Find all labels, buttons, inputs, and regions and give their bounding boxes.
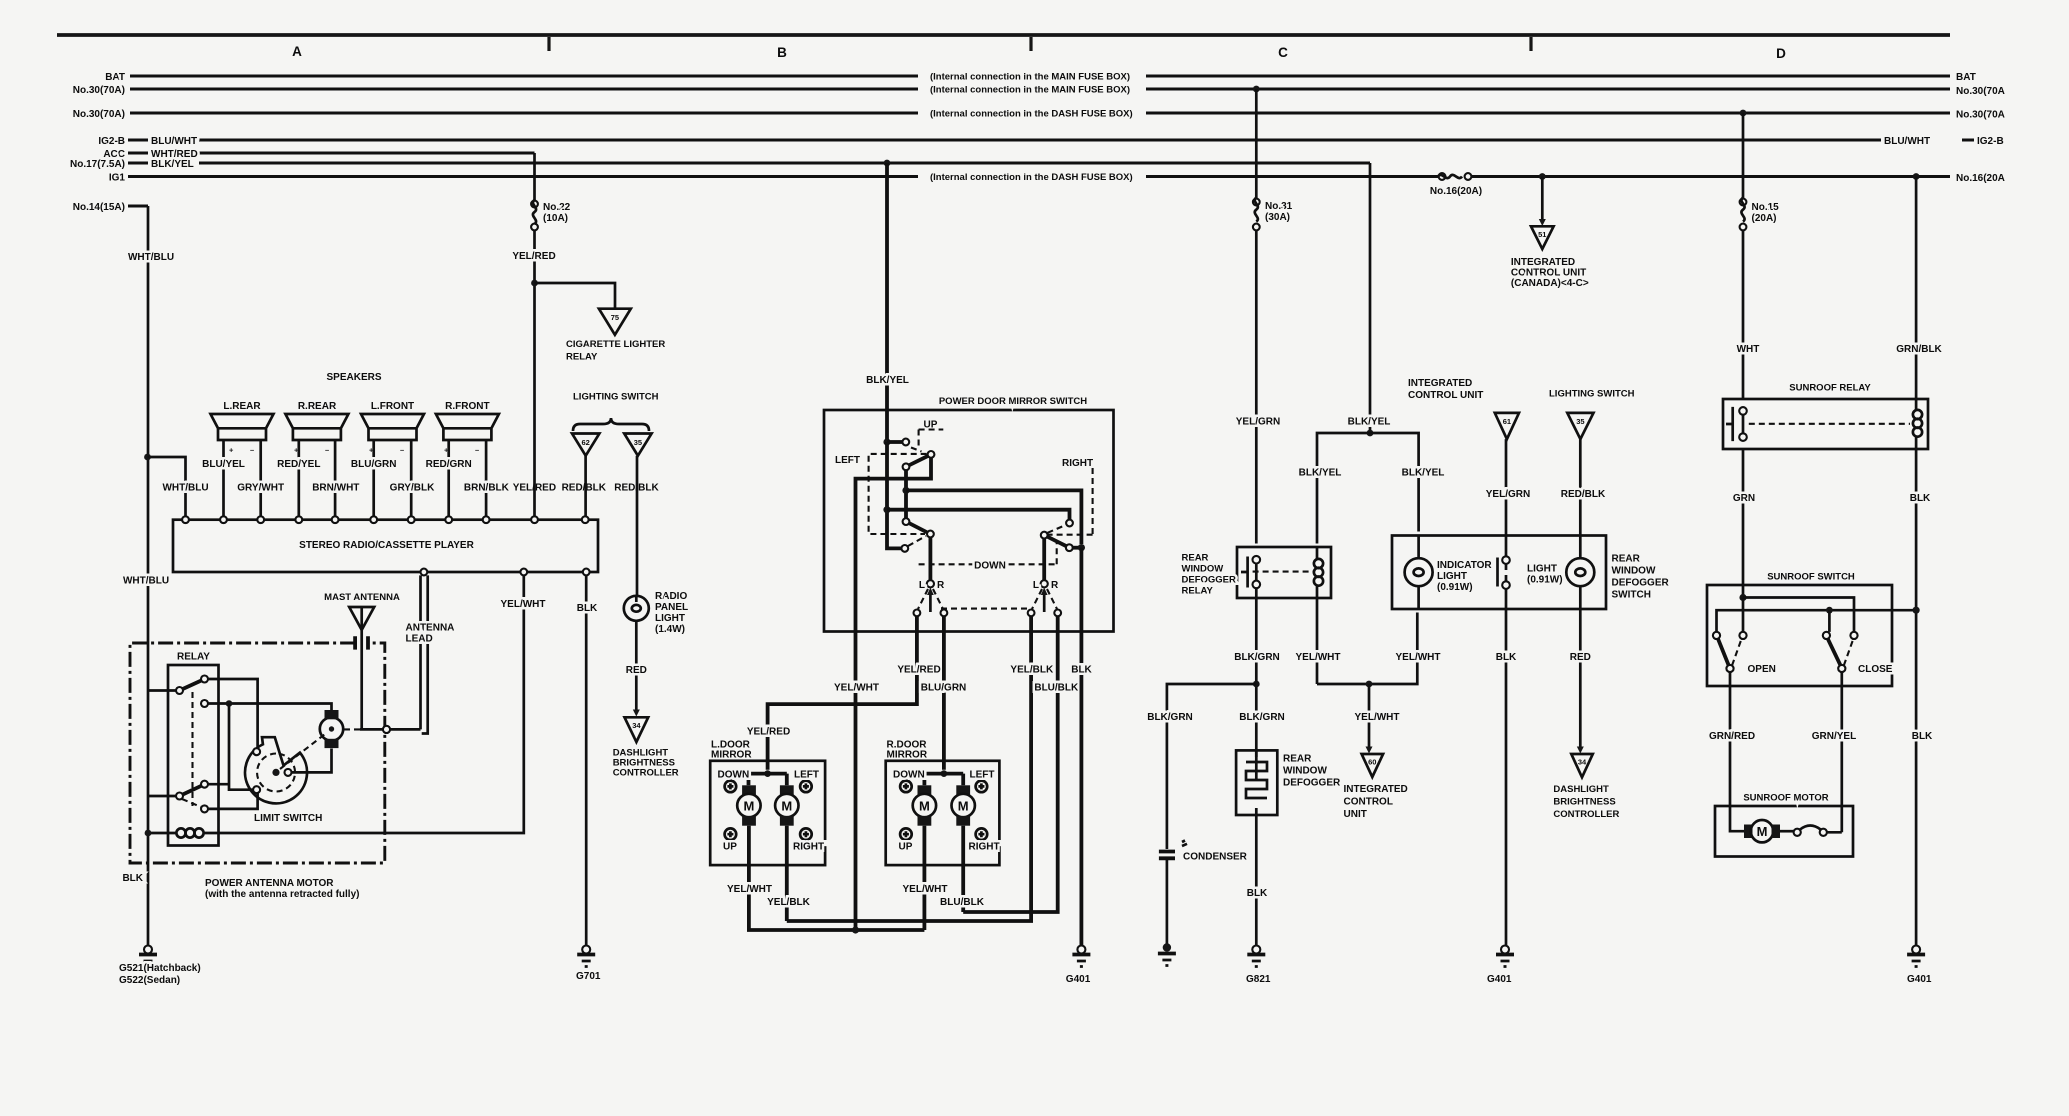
svg-text:LIGHTING SWITCH: LIGHTING SWITCH (1549, 389, 1635, 400)
svg-text:DEFOGGER: DEFOGGER (1612, 578, 1670, 589)
svg-text:G821: G821 (1246, 974, 1271, 985)
svg-text:CLOSE: CLOSE (1858, 664, 1893, 675)
node on BLK/YEL bus for mirror switch (884, 160, 891, 167)
svg-text:34: 34 (632, 721, 641, 730)
svg-text:DEFOGGER: DEFOGGER (1283, 778, 1341, 789)
wire BLK/YEL down to mirror switch (885, 163, 889, 442)
wire WHT/BLU vertical from No.14 (147, 206, 150, 946)
svg-text:–: – (475, 446, 479, 455)
svg-text:No.30(70A): No.30(70A) (73, 109, 125, 120)
svg-text:RED/YEL: RED/YEL (277, 459, 320, 470)
svg-text:CONTROLLER: CONTROLLER (1553, 809, 1619, 820)
speaker R.FRONT (436, 401, 499, 516)
svg-text:CIGARETTE LIGHTER: CIGARETTE LIGHTER (566, 339, 665, 350)
antenna lead twin line (421, 575, 428, 733)
wire BLK to G821 (1255, 815, 1258, 946)
svg-text:YEL/BLK: YEL/BLK (767, 897, 811, 908)
relay terminals (1253, 556, 1261, 564)
svg-text:RADIO: RADIO (655, 591, 687, 602)
dashed D-F (182, 799, 201, 807)
svg-text:60: 60 (1368, 758, 1376, 767)
wire BLK/GRN below relay (1255, 588, 1258, 780)
stub No.14 (128, 205, 148, 208)
svg-text:(with the antenna retracted fu: (with the antenna retracted fully) (205, 889, 359, 900)
svg-text:(20A): (20A) (1752, 213, 1777, 224)
wire E stub (208, 783, 229, 786)
triangle 61 (1495, 413, 1519, 439)
svg-text:BLU/WHT: BLU/WHT (1884, 136, 1930, 147)
svg-text:INTEGRATED: INTEGRATED (1408, 378, 1472, 389)
svg-text:G401: G401 (1487, 974, 1512, 985)
svg-text:BLK: BLK (577, 603, 598, 614)
triangle 75 cigarette lighter relay (599, 309, 631, 335)
wire C to motor top (208, 704, 332, 711)
svg-text:(Internal connection in the DA: (Internal connection in the DASH FUSE BO… (930, 109, 1133, 120)
wires YEL/RED BLU/GRN exit (917, 616, 944, 631)
svg-text:YEL/WHT: YEL/WHT (903, 884, 948, 895)
svg-text:CONTROL UNIT: CONTROL UNIT (1511, 268, 1586, 279)
wire to cigarette lighter relay (535, 283, 616, 309)
svg-text:STEREO RADIO/CASSETTE PLAYER: STEREO RADIO/CASSETTE PLAYER (299, 540, 474, 551)
svg-text:GRN/RED: GRN/RED (1709, 731, 1755, 742)
dash-dot power antenna motor box (130, 643, 385, 863)
node on No.30-2 bus for WHT (1740, 110, 1747, 117)
rear window defogger relay box (1237, 547, 1331, 598)
stub to BLK rail (1073, 546, 1082, 550)
antenna motor (320, 710, 383, 748)
svg-text:34: 34 (1578, 758, 1587, 767)
svg-text:L: L (919, 580, 925, 591)
fork BLU/GRN (941, 770, 948, 777)
svg-text:BLU/BLK: BLU/BLK (940, 897, 985, 908)
svg-text:REAR: REAR (1182, 553, 1209, 564)
svg-text:DOWN: DOWN (718, 770, 750, 781)
svg-text:WINDOW: WINDOW (1612, 566, 1656, 577)
wire BLK relay down (1915, 449, 1918, 946)
svg-text:SUNROOF SWITCH: SUNROOF SWITCH (1767, 572, 1855, 583)
node YEL/WHT join (852, 926, 859, 933)
svg-text:WHT/BLU: WHT/BLU (162, 483, 208, 494)
svg-text:YEL/WHT: YEL/WHT (727, 884, 772, 895)
svg-text:No.17(7.5A): No.17(7.5A) (70, 159, 125, 170)
svg-text:(Internal connection in the MA: (Internal connection in the MAIN FUSE BO… (930, 85, 1130, 96)
svg-text:DASHLIGHT: DASHLIGHT (1553, 784, 1609, 795)
right switch contacts (1066, 520, 1073, 527)
svg-text:(0.91W): (0.91W) (1527, 575, 1563, 586)
svg-text:BLK/YEL: BLK/YEL (151, 159, 194, 170)
svg-text:RELAY: RELAY (1182, 586, 1214, 597)
sunroof relay box (1723, 399, 1928, 449)
limit switch disc (245, 733, 331, 825)
motor L.DOOR down/up (742, 785, 756, 795)
wire No.30(70A) bus (130, 88, 1950, 91)
svg-text:INTEGRATED: INTEGRATED (1344, 784, 1408, 795)
svg-text:YEL/WHT: YEL/WHT (1296, 652, 1341, 663)
section tick A/B (547, 37, 550, 51)
ground G821 (1252, 946, 1260, 954)
dash ACC (128, 152, 148, 155)
limit switch top terminal (253, 748, 260, 755)
svg-text:BLK/YEL: BLK/YEL (1402, 468, 1445, 479)
node cigarette branch (531, 280, 538, 287)
wire BLU/GRN below box (942, 632, 946, 770)
triangle 35 (C) (1567, 413, 1593, 439)
arm upper (909, 456, 928, 465)
svg-text:61: 61 (1503, 417, 1511, 426)
dash No.17 (128, 162, 148, 165)
svg-text:GRN/BLK: GRN/BLK (1896, 344, 1942, 355)
relay contact C (201, 700, 208, 707)
relay contact F (201, 805, 208, 812)
svg-text:BLK/YEL: BLK/YEL (1348, 417, 1391, 428)
svg-text:No.31: No.31 (1265, 201, 1293, 212)
triangle 62 (572, 434, 599, 456)
dashed V left group (918, 589, 943, 609)
YEL/WHT bus (1317, 613, 1417, 685)
svg-text:(10A): (10A) (543, 213, 568, 224)
svg-text:BLK: BLK (1247, 888, 1268, 899)
svg-text:RED: RED (1570, 652, 1591, 663)
svg-text:SPEAKERS: SPEAKERS (326, 372, 381, 383)
svg-text:BLK/YEL: BLK/YEL (866, 375, 909, 386)
svg-text:YEL/GRN: YEL/GRN (1486, 489, 1530, 500)
svg-text:No.16(20A): No.16(20A) (1430, 186, 1482, 197)
dashed link lower arrows (941, 608, 1027, 610)
svg-text:WHT/BLU: WHT/BLU (128, 252, 174, 263)
svg-text:(Internal connection in the DA: (Internal connection in the DASH FUSE BO… (930, 172, 1133, 183)
svg-text:35: 35 (634, 438, 642, 447)
wire BLK/YEL continues (887, 442, 901, 548)
wire YEL/RED from ACC (533, 153, 536, 516)
svg-text:RED/BLK: RED/BLK (1561, 489, 1606, 500)
relay coil (1314, 559, 1323, 568)
svg-text:D: D (1776, 46, 1786, 61)
svg-text:M: M (781, 799, 792, 814)
node BLK/YEL split (1367, 430, 1374, 437)
rail 1 to right switch (906, 490, 1081, 544)
svg-text:WINDOW: WINDOW (1283, 766, 1327, 777)
svg-text:GRY/BLK: GRY/BLK (390, 483, 435, 494)
svg-text:BAT: BAT (105, 72, 125, 83)
svg-text:UNIT: UNIT (1344, 809, 1367, 820)
relay dashed linkage (191, 692, 193, 806)
svg-text:75: 75 (611, 313, 619, 322)
svg-text:BLK/GRN: BLK/GRN (1239, 712, 1285, 723)
svg-text:G401: G401 (1066, 974, 1091, 985)
condenser (1159, 852, 1175, 859)
svg-text:BLU/WHT: BLU/WHT (151, 136, 197, 147)
svg-text:IG1: IG1 (109, 173, 126, 184)
svg-text:35: 35 (1576, 417, 1584, 426)
wire BLK/YEL main down (1369, 163, 1372, 433)
svg-text:LIGHT: LIGHT (655, 613, 685, 624)
relay coil (176, 828, 185, 837)
top rule (57, 33, 1950, 37)
wire YEL/GRN from fuse No.31 (1255, 89, 1258, 544)
svg-text:REAR: REAR (1612, 554, 1641, 565)
svg-text:No.30(70A: No.30(70A (1956, 110, 2005, 121)
svg-text:LEFT: LEFT (794, 770, 819, 781)
triangle 60 (1362, 754, 1384, 777)
wire pivot down to L R (929, 537, 933, 580)
svg-text:BLK: BLK (1910, 493, 1931, 504)
svg-text:(0.91W): (0.91W) (1437, 582, 1473, 593)
fuse No.16(20A) inline (1439, 173, 1446, 180)
svg-text:RED/GRN: RED/GRN (426, 459, 472, 470)
wire to triangle 60 (1368, 684, 1371, 747)
wire BAT bus (130, 75, 1950, 78)
svg-text:G522(Sedan): G522(Sedan) (119, 975, 180, 986)
svg-text:BLK: BLK (1071, 665, 1092, 676)
wire WHT/BLU to contact D (148, 795, 176, 798)
svg-text:GRN: GRN (1733, 493, 1755, 504)
stereo bottom pins (421, 569, 428, 576)
svg-text:RED: RED (626, 665, 647, 676)
motor switch contacts (1794, 829, 1801, 836)
node GRN rail (1739, 594, 1746, 601)
svg-text:(CANADA)<4-C>: (CANADA)<4-C> (1511, 278, 1589, 289)
svg-text:DEFOGGER: DEFOGGER (1182, 575, 1237, 586)
svg-text:MIRROR: MIRROR (887, 750, 928, 761)
arm right switch (1047, 537, 1066, 546)
indicator light / defogger switch box (1392, 536, 1606, 610)
ground G401 (B) (1077, 946, 1085, 954)
svg-text:RELAY: RELAY (566, 352, 598, 363)
svg-text:No.15: No.15 (1752, 202, 1780, 213)
wire BLK below box to G401 (1505, 609, 1508, 946)
motor L.DOOR left/right (780, 785, 794, 795)
R.DOOR wires below (924, 865, 963, 930)
svg-text:SUNROOF MOTOR: SUNROOF MOTOR (1743, 793, 1828, 804)
condenser ground (1163, 943, 1171, 951)
svg-text:YEL/RED: YEL/RED (747, 727, 790, 738)
node BLK/GRN branch to condenser (1253, 681, 1260, 688)
svg-text:BLK/GRN: BLK/GRN (1234, 652, 1280, 663)
wire ACC WHT/RED bus (199, 152, 535, 155)
OPEN switch (1713, 632, 1720, 639)
svg-text:MAST ANTENNA: MAST ANTENNA (324, 592, 400, 603)
dash IG2-B (128, 139, 148, 142)
svg-text:WINDOW: WINDOW (1182, 564, 1224, 575)
dashed V right group (1032, 589, 1057, 609)
speaker L.REAR (211, 401, 274, 516)
wire from upper contact down-left to YEL/WHT exit (856, 458, 932, 632)
wire RED below box (1579, 609, 1582, 747)
arm D-E (183, 786, 202, 795)
svg-text:BLK: BLK (122, 873, 143, 884)
node C branch (226, 700, 233, 707)
node long rail 1 (902, 487, 909, 494)
svg-text:INTEGRATED: INTEGRATED (1511, 257, 1575, 268)
svg-text:REAR: REAR (1283, 754, 1312, 765)
svg-text:SUNROOF RELAY: SUNROOF RELAY (1789, 383, 1871, 394)
wire No.17 BLK/YEL bus (199, 162, 1370, 165)
wire RED/BLK from 35 (1579, 439, 1582, 558)
wire B to limit switch top (208, 679, 258, 748)
svg-text:CONTROL: CONTROL (1344, 797, 1393, 808)
wire YEL/WHT relay to bus (1316, 598, 1319, 684)
wire No.30(70A) second bus (130, 112, 1950, 115)
stub to contact (887, 440, 902, 444)
svg-text:RIGHT: RIGHT (793, 842, 824, 853)
wire pivot right down (1042, 539, 1046, 581)
node on No.30 bus for fuse No.31 (1253, 86, 1260, 93)
svg-text:LIMIT SWITCH: LIMIT SWITCH (254, 813, 322, 824)
svg-text:CONTROL UNIT: CONTROL UNIT (1408, 390, 1483, 401)
svg-text:RIGHT: RIGHT (1062, 458, 1093, 469)
wire YEL/WHT below box (854, 632, 858, 931)
svg-text:L.FRONT: L.FRONT (371, 401, 414, 412)
svg-text:G701: G701 (576, 971, 601, 982)
svg-text:BRN/BLK: BRN/BLK (464, 483, 510, 494)
dashed DOWN link (919, 540, 1057, 564)
arrow up right group (1043, 592, 1046, 612)
wire to triangle 51 (1541, 177, 1544, 220)
svg-text:YEL/WHT: YEL/WHT (834, 683, 879, 694)
brace lighting switch (573, 418, 649, 431)
svg-text:BAT: BAT (1956, 72, 1976, 83)
svg-text:PANEL: PANEL (655, 602, 688, 613)
wire BLK exits (1080, 548, 1084, 632)
relay terminals (1739, 407, 1747, 415)
svg-text:BLU/GRN: BLU/GRN (351, 459, 397, 470)
node WHT/BLU to stereo (144, 454, 151, 461)
arm lower-left (909, 523, 927, 532)
svg-text:No.16(20A: No.16(20A (1956, 173, 2005, 184)
svg-text:ANTENNA: ANTENNA (406, 623, 455, 634)
svg-text:BLK/YEL: BLK/YEL (1299, 468, 1342, 479)
svg-text:GRY/WHT: GRY/WHT (237, 483, 284, 494)
svg-text:BLK: BLK (1912, 731, 1933, 742)
svg-text:(1.4W): (1.4W) (655, 624, 685, 635)
svg-text:YEL/WHT: YEL/WHT (1396, 652, 1441, 663)
svg-text:G401: G401 (1907, 974, 1932, 985)
svg-text:+: + (229, 446, 234, 455)
fork YEL/RED (764, 770, 771, 777)
svg-text:(30A): (30A) (1265, 212, 1290, 223)
limit switch center terminal (285, 769, 292, 776)
svg-text:CONTROLLER: CONTROLLER (613, 768, 679, 779)
wire IG1 / No.16 bus (128, 175, 1950, 178)
fuse No.31 (1253, 199, 1260, 206)
antenna lead terminal (390, 728, 421, 731)
svg-text:–: – (325, 446, 329, 455)
relay contact A (176, 687, 183, 694)
arrow up left group (929, 592, 932, 612)
svg-text:UP: UP (899, 842, 913, 853)
svg-text:LIGHT: LIGHT (1437, 571, 1467, 582)
svg-text:BLU/GRN: BLU/GRN (921, 683, 967, 694)
relay contact E (201, 781, 208, 788)
arm A-B (183, 681, 202, 690)
antenna coupling capacitor (355, 636, 368, 649)
ground G521/G522 (144, 946, 152, 954)
node long rail 2 (883, 506, 890, 513)
wire RED/BLK from 35 to radio panel light (636, 456, 639, 596)
svg-text:BLU/BLK: BLU/BLK (1034, 683, 1079, 694)
wire YEL/RED below box (768, 632, 917, 770)
svg-text:R.FRONT: R.FRONT (445, 401, 489, 412)
relay dashed (1749, 423, 1910, 425)
triangle 35 (A) (624, 434, 651, 456)
lower-left switch contacts (903, 518, 910, 525)
sunroof motor box (1715, 806, 1853, 857)
svg-text:YEL/RED: YEL/RED (897, 665, 940, 676)
svg-text:R: R (937, 580, 945, 591)
svg-text:RIGHT: RIGHT (969, 842, 1000, 853)
fuse No.22 (531, 201, 538, 208)
L.DOOR wires below (749, 865, 925, 930)
svg-text:M: M (919, 799, 930, 814)
relay box (A) (168, 665, 219, 846)
svg-text:M: M (1757, 824, 1768, 839)
svg-text:LEAD: LEAD (406, 634, 433, 645)
svg-text:OPEN: OPEN (1748, 664, 1776, 675)
svg-text:G521(Hatchback): G521(Hatchback) (119, 963, 201, 974)
svg-text:RED/BLK: RED/BLK (562, 483, 607, 494)
svg-text:B: B (777, 45, 787, 60)
svg-text:YEL/WHT: YEL/WHT (1355, 712, 1400, 723)
rear window defogger grid (1236, 750, 1277, 815)
svg-text:IG2-B: IG2-B (1977, 136, 2004, 147)
wire BLK stereo to G701 (585, 575, 588, 945)
node on No.16 bus for triangle 51 (1539, 173, 1546, 180)
relay T-bar (1241, 557, 1248, 588)
svg-text:CONDENSER: CONDENSER (1183, 852, 1248, 863)
triangle 51 (1531, 226, 1554, 249)
dashed diag lower-left (908, 536, 926, 546)
relay dashed linkage (1253, 571, 1313, 573)
ground G701 (582, 946, 590, 954)
motor (1730, 806, 1744, 831)
svg-text:POWER ANTENNA MOTOR: POWER ANTENNA MOTOR (205, 878, 334, 889)
stereo top pins (182, 516, 189, 523)
svg-text:(Internal connection in the MA: (Internal connection in the MAIN FUSE BO… (930, 72, 1130, 83)
relay contact D (176, 793, 183, 800)
svg-text:YEL/GRN: YEL/GRN (1236, 417, 1280, 428)
node BLK/YEL upper (883, 438, 890, 445)
svg-text:WHT: WHT (1737, 344, 1760, 355)
stereo radio/cassette player box (173, 520, 598, 572)
svg-text:No.22: No.22 (543, 202, 571, 213)
switch contacts (1502, 556, 1510, 564)
rail 1 (1743, 598, 1854, 632)
section tick B/C (1029, 37, 1032, 51)
GRN continues to contact (1742, 598, 1745, 632)
rail 2 (1717, 610, 1917, 632)
wire YEL/BLK below box (787, 632, 1031, 922)
svg-text:BLK/GRN: BLK/GRN (1147, 712, 1193, 723)
svg-text:IG2-B: IG2-B (98, 136, 125, 147)
svg-text:LEFT: LEFT (835, 455, 860, 466)
sunroof switch box (1707, 585, 1892, 686)
relay contact B (201, 676, 208, 683)
svg-text:BLK: BLK (1496, 652, 1517, 663)
plus terminals R.DOOR (900, 781, 987, 840)
svg-text:No.30(70A): No.30(70A) (73, 85, 125, 96)
svg-text:POWER DOOR MIRROR SWITCH: POWER DOOR MIRROR SWITCH (939, 396, 1087, 407)
svg-text:YEL/WHT: YEL/WHT (501, 599, 546, 610)
svg-text:–: – (400, 446, 404, 455)
wire WHT/BLU to stereo pin1 (148, 457, 186, 516)
svg-text:MIRROR: MIRROR (711, 750, 752, 761)
svg-text:LEFT: LEFT (970, 770, 995, 781)
relay T-bar (1726, 407, 1733, 441)
svg-text:R: R (1051, 580, 1059, 591)
svg-text:A: A (292, 44, 302, 59)
svg-text:WHT/BLU: WHT/BLU (123, 576, 169, 587)
wire BLK below box to G401 (1080, 632, 1084, 946)
